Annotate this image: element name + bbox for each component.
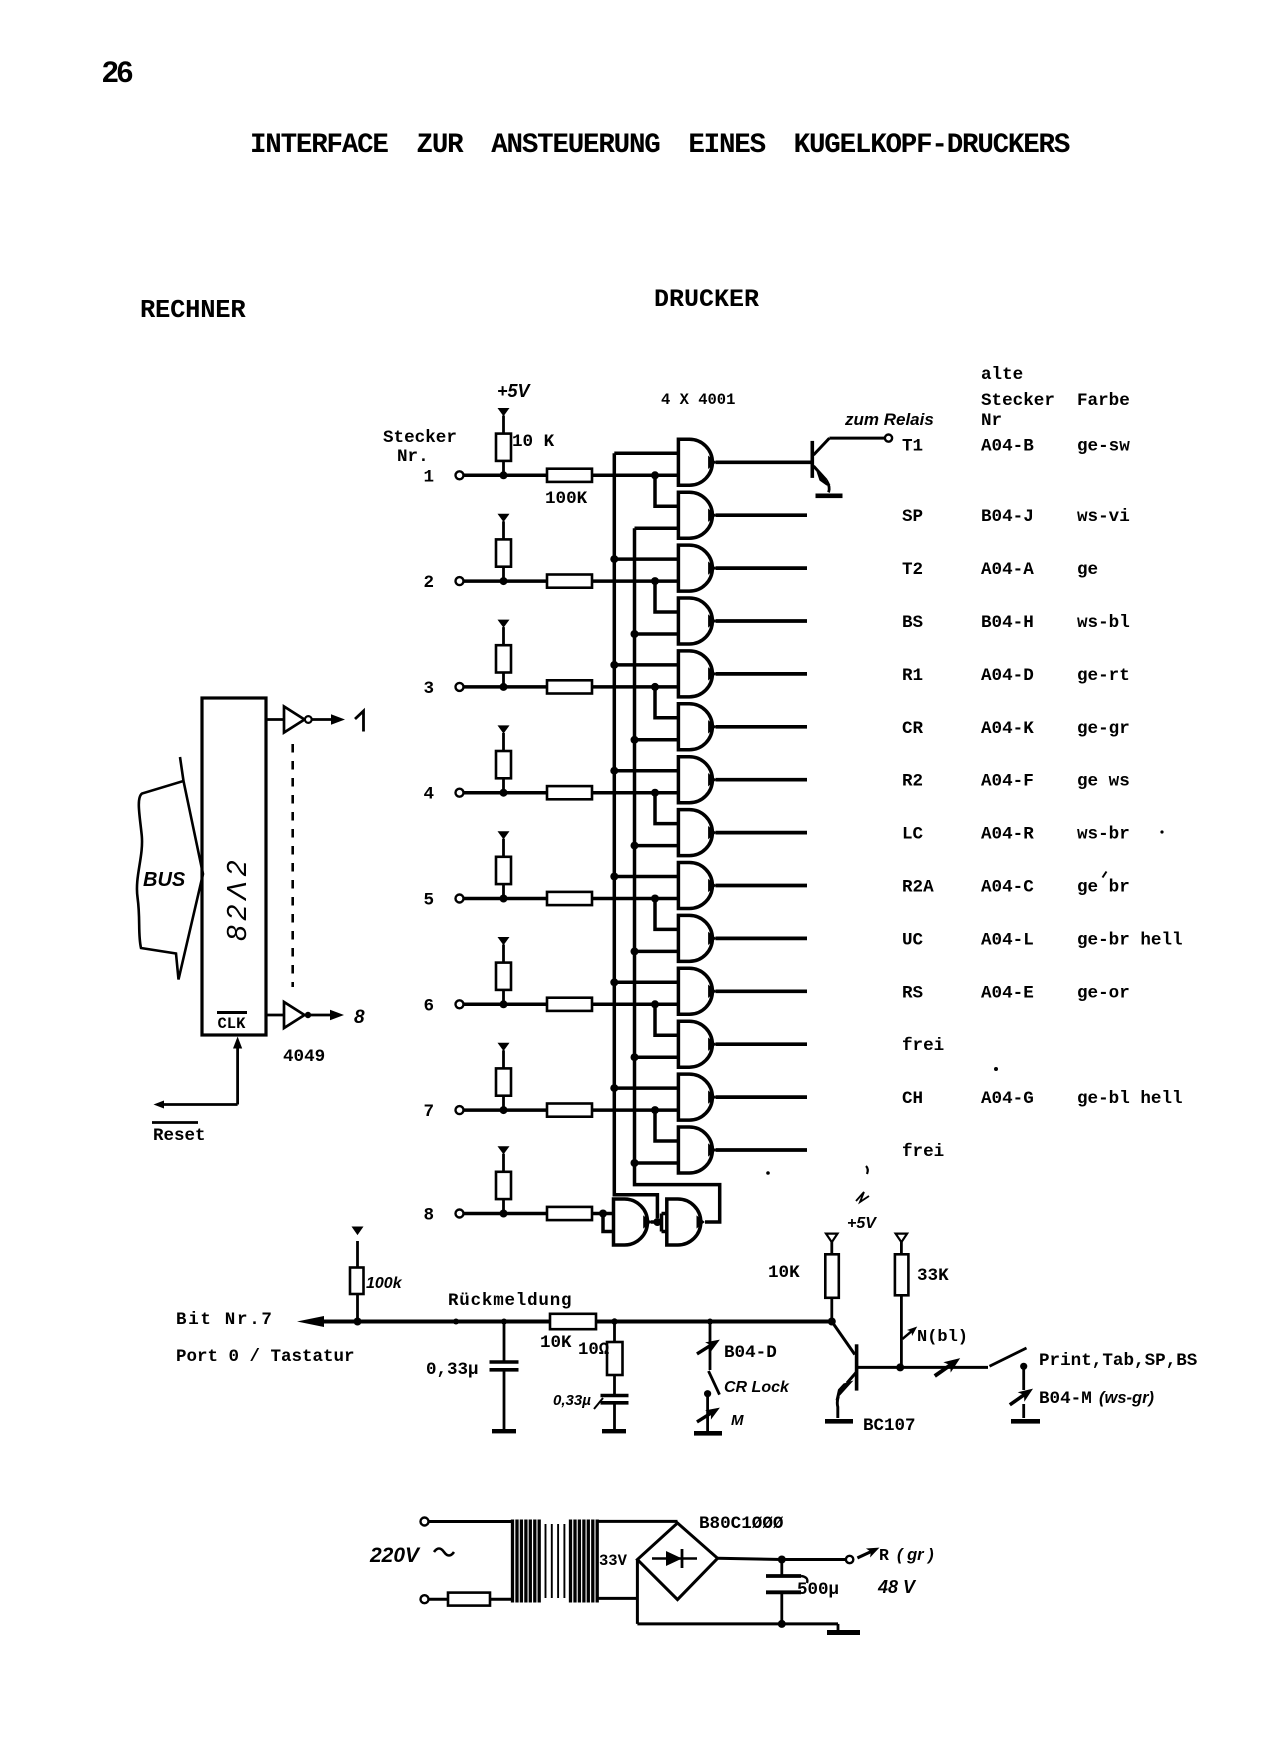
- svg-text:ge-sw: ge-sw: [1077, 437, 1130, 457]
- pull-up resistor 10K row 4: [496, 725, 511, 796]
- svg-text:ge-rt: ge-rt: [1077, 666, 1130, 686]
- svg-text:220V: 220V: [369, 1544, 421, 1567]
- wire AC top: [429, 1520, 512, 1523]
- NOR gate U3c (RS): [678, 968, 715, 1014]
- svg-text:A04-L: A04-L: [981, 930, 1034, 950]
- IC 8212 box: [202, 698, 266, 1035]
- svg-text:T2: T2: [902, 560, 923, 580]
- svg-text:8: 8: [354, 1007, 365, 1028]
- svg-text:UC: UC: [902, 930, 924, 950]
- series resistor 100K row 3: [464, 680, 679, 693]
- label bit 8 handwritten: [354, 1007, 365, 1028]
- svg-text:Port 0 / Tastatur: Port 0 / Tastatur: [176, 1347, 355, 1367]
- NOR gate U3b (UC): [678, 915, 715, 961]
- ground M branch: [694, 1431, 722, 1436]
- wire output LC: [715, 831, 807, 835]
- svg-text:M: M: [731, 1412, 744, 1429]
- NOR gate U2d (LC): [678, 810, 715, 856]
- resistor 10K feedback: [540, 1314, 596, 1353]
- svg-text:ge-bl hell: ge-bl hell: [1077, 1089, 1183, 1109]
- NOR gate U1b (SP): [678, 492, 715, 538]
- contact R mark: [855, 1543, 881, 1562]
- capacitor C1 0,33u: [490, 1319, 519, 1430]
- speck: [766, 830, 1163, 1174]
- label BC107: [863, 1416, 916, 1436]
- svg-text:5: 5: [423, 891, 434, 911]
- labels row R1: [902, 666, 1130, 686]
- label DRUCKER: [654, 285, 759, 314]
- wire secondary top: [598, 1520, 678, 1523]
- label 48V: [877, 1577, 917, 1597]
- series resistor 100K row 2: [464, 575, 679, 588]
- svg-text:Nr.: Nr.: [397, 447, 429, 467]
- pull-up resistor 10K row 5: [496, 831, 511, 902]
- wire bus tap to gate 6 bottom input: [631, 736, 679, 744]
- transformer TR1: [513, 1520, 598, 1603]
- labels row T2: [902, 560, 1098, 580]
- svg-text:ws-br: ws-br: [1077, 825, 1130, 845]
- svg-text:CR Lock: CR Lock: [724, 1379, 790, 1396]
- wire input 1 branch to gate 2: [651, 471, 678, 506]
- NOR gate U2b (CR): [678, 704, 715, 750]
- label 0,33u handwritten: [553, 1392, 603, 1409]
- wire bus tap to gate 5 top input: [610, 661, 678, 669]
- ground C2: [602, 1429, 626, 1433]
- terminal zum Relais: [885, 435, 892, 442]
- pull-up resistor 10K row 8: [496, 1146, 511, 1217]
- resistor 100k feedback pull-up: [350, 1227, 364, 1326]
- wire bus tap to gate 4 bottom input: [631, 630, 679, 638]
- svg-text:B04-M: B04-M: [1039, 1389, 1092, 1409]
- wire input 7 branch to gate 14: [651, 1106, 678, 1141]
- wire output BS: [715, 619, 807, 623]
- wire input 3 branch to gate 6: [651, 683, 678, 718]
- wire input 8 branch: [599, 1210, 614, 1232]
- NOR gate U4c (strobe inverter 1): [614, 1199, 651, 1245]
- svg-text:Stecker: Stecker: [981, 391, 1055, 411]
- NOR gate U4a (CH): [678, 1074, 715, 1120]
- wire input 2 branch to gate 4: [651, 577, 678, 612]
- ground Q1 emitter: [816, 494, 843, 499]
- contact N(bl): [900, 1323, 920, 1342]
- label +5V (BC107): [847, 1215, 877, 1232]
- capacitor C3 500u: [766, 1560, 807, 1624]
- wire DC minus rail: [637, 1560, 838, 1632]
- wire clock input: [154, 1037, 243, 1109]
- ground switch branch: [1011, 1419, 1040, 1424]
- wire output T2: [715, 566, 807, 570]
- ground supply: [827, 1630, 860, 1635]
- input terminal 6: [423, 996, 463, 1016]
- wire output frei: [715, 1042, 807, 1046]
- svg-text:RECHNER: RECHNER: [140, 296, 246, 325]
- NOR gate U2a (R1): [678, 651, 715, 697]
- label zum Relais: [844, 410, 934, 429]
- label 0,33u: [426, 1360, 479, 1380]
- svg-text:10K: 10K: [540, 1333, 572, 1353]
- svg-text:A04-K: A04-K: [981, 719, 1034, 739]
- labels row UC: [902, 930, 1183, 950]
- wire bus tap to gate 8 bottom input: [631, 842, 679, 850]
- pull-up resistor 10K row 3: [496, 620, 511, 691]
- svg-text:10K: 10K: [768, 1263, 800, 1283]
- wire bus tap to gate 14 bottom input: [631, 1159, 679, 1167]
- wire 10K pull-up (BC107 collector): [825, 1234, 839, 1326]
- svg-text:INTERFACE ZUR ANSTEUERUNG EINE: INTERFACE ZUR ANSTEUERUNG EINES KUGELKOP…: [250, 130, 1070, 161]
- svg-text:26: 26: [102, 56, 133, 89]
- labels row R2A: [902, 872, 1130, 898]
- labels row frei: [902, 1142, 944, 1162]
- svg-text:Farbe: Farbe: [1077, 391, 1130, 411]
- label Stecker Nr.: [383, 428, 457, 467]
- label 33V: [599, 1552, 628, 1570]
- svg-text:33K: 33K: [917, 1266, 949, 1286]
- svg-text:A04-F: A04-F: [981, 772, 1034, 792]
- wire output R2A: [715, 884, 807, 888]
- wire output CR: [715, 725, 807, 729]
- svg-text:A04-E: A04-E: [981, 983, 1034, 1003]
- svg-text:Rückmeldung: Rückmeldung: [448, 1291, 572, 1311]
- series resistor 100K row 5: [464, 892, 679, 905]
- label 4049: [283, 1047, 325, 1067]
- svg-text:100k: 100k: [366, 1275, 403, 1292]
- svg-text:CH: CH: [902, 1089, 923, 1109]
- label 10K (BC107): [768, 1263, 800, 1283]
- bridge rectifier B80C1000: [637, 1523, 717, 1600]
- transistor Q2 BC107: [832, 1322, 904, 1419]
- contact B04-M: [1007, 1384, 1037, 1410]
- label B04-D: [724, 1343, 777, 1363]
- svg-text:ge br: ge br: [1077, 878, 1130, 898]
- wire gate 1 output to Q1 base: [715, 460, 810, 464]
- wire bus tap to gate 12 bottom input: [631, 1053, 679, 1061]
- title: [250, 130, 1070, 161]
- terminal 220V bottom: [421, 1595, 429, 1603]
- label 100K: [545, 489, 588, 509]
- wire output UC: [715, 937, 807, 941]
- svg-text:B80C1ØØØ: B80C1ØØØ: [699, 1514, 784, 1534]
- wire bus tap to gate 11 top input: [610, 978, 678, 986]
- wire B04-D branch: [707, 1319, 713, 1371]
- NOR gate U2c (R2): [678, 757, 715, 803]
- header alte: [981, 365, 1023, 385]
- wire B04-M to ground: [1022, 1404, 1025, 1418]
- wire DC plus: [718, 1556, 846, 1564]
- wire second bus (NOR strobe B): [635, 528, 720, 1222]
- svg-text:ge-br hell: ge-br hell: [1077, 930, 1183, 950]
- svg-text:B04-D: B04-D: [724, 1343, 777, 1363]
- svg-text:10 K: 10 K: [512, 432, 555, 452]
- svg-text:frei: frei: [902, 1036, 944, 1056]
- svg-text:B04-H: B04-H: [981, 613, 1034, 633]
- svg-text:10Ω: 10Ω: [578, 1341, 609, 1360]
- fuse F1: [429, 1593, 512, 1606]
- labels row frei: [902, 1036, 944, 1056]
- label BUS: [143, 869, 186, 891]
- contact M: [694, 1403, 744, 1429]
- svg-text:R1: R1: [902, 666, 923, 686]
- svg-text:4: 4: [423, 785, 434, 805]
- label Bit Nr.7: [176, 1310, 274, 1330]
- label 500u: [797, 1580, 839, 1600]
- svg-text:R2: R2: [902, 772, 923, 792]
- svg-text:48 V: 48 V: [877, 1577, 917, 1597]
- svg-text:( gr ): ( gr ): [897, 1546, 934, 1564]
- labels row T1: [902, 437, 1130, 457]
- labels row SP: [902, 507, 1130, 527]
- input terminal 5: [423, 891, 463, 911]
- NOR gate U1d (BS): [678, 598, 715, 644]
- buffer 4049 top: [266, 707, 345, 733]
- switch CR Lock: [704, 1371, 720, 1431]
- svg-text:Reset: Reset: [153, 1126, 206, 1146]
- wire output R2: [715, 778, 807, 782]
- svg-text:Nr: Nr: [981, 411, 1002, 431]
- labels row BS: [902, 613, 1130, 633]
- svg-text:DRUCKER: DRUCKER: [654, 285, 759, 314]
- contact B04-D: [694, 1335, 723, 1359]
- page number: [102, 56, 133, 89]
- label CLK: [217, 1013, 247, 1034]
- switch Print: [990, 1348, 1028, 1390]
- svg-text:ge: ge: [1077, 560, 1098, 580]
- terminal 220V top: [421, 1518, 429, 1526]
- series resistor 100K row 1: [464, 469, 679, 482]
- svg-text:Stecker: Stecker: [383, 428, 457, 448]
- labels row CH: [902, 1089, 1183, 1109]
- header Farbe: [1077, 391, 1130, 411]
- labels row LC: [902, 825, 1130, 845]
- resistor 33K: [895, 1234, 909, 1368]
- NOR gate U1a (T1): [678, 439, 715, 485]
- svg-text:A04-G: A04-G: [981, 1089, 1034, 1109]
- label 4 X 4001: [661, 391, 735, 409]
- wire bus tap to gate 10 bottom input: [631, 947, 679, 955]
- contact switch wire: [931, 1353, 964, 1381]
- wire output R1: [715, 672, 807, 676]
- svg-text:4049: 4049: [283, 1047, 325, 1067]
- svg-text:T1: T1: [902, 437, 923, 457]
- svg-text:4 X 4001: 4 X 4001: [661, 391, 735, 409]
- wire bus tap to gate 9 top input: [610, 873, 678, 881]
- buffer 4049 bottom: [266, 1002, 344, 1028]
- wire left bus (NOR strobe A): [614, 453, 678, 1218]
- svg-text:A04-R: A04-R: [981, 825, 1034, 845]
- header Stecker Nr: [981, 391, 1055, 431]
- svg-text:6: 6: [423, 996, 434, 1016]
- label 100k handwritten: [366, 1275, 403, 1292]
- input terminal 4: [423, 785, 463, 805]
- scribble mark: [856, 1192, 869, 1202]
- label 8212: [221, 856, 252, 941]
- label 220V: [369, 1544, 454, 1567]
- svg-text:A04-B: A04-B: [981, 437, 1034, 457]
- ground C1: [492, 1429, 516, 1433]
- labels row R2: [902, 772, 1130, 792]
- svg-text:N(bl): N(bl): [917, 1328, 968, 1347]
- label B04-M: [1039, 1389, 1155, 1409]
- label Port 0 / Tastatur: [176, 1347, 355, 1367]
- svg-text:7: 7: [423, 1102, 434, 1122]
- svg-text:2: 2: [423, 573, 434, 593]
- NOR gate U4b (frei): [678, 1127, 715, 1173]
- ground Q2 emitter: [825, 1419, 853, 1424]
- label +5V: [497, 381, 532, 401]
- svg-text:frei: frei: [902, 1142, 944, 1162]
- svg-text:+5V: +5V: [847, 1215, 877, 1232]
- wire secondary bottom: [598, 1597, 637, 1600]
- label N(bl): [917, 1328, 968, 1347]
- svg-text:BC107: BC107: [863, 1416, 916, 1436]
- transistor Q1 (relay driver): [811, 438, 885, 492]
- wire base to switch: [900, 1366, 988, 1369]
- svg-text:3: 3: [423, 679, 434, 699]
- svg-text:Bit Nr.7: Bit Nr.7: [176, 1310, 274, 1330]
- svg-text:100K: 100K: [545, 489, 588, 509]
- svg-text:Print,Tab,SP,BS: Print,Tab,SP,BS: [1039, 1351, 1198, 1371]
- svg-text:ge ws: ge ws: [1077, 772, 1130, 792]
- input terminal 8: [423, 1206, 463, 1226]
- svg-text:A04-C: A04-C: [981, 878, 1034, 898]
- terminal R(gr): [846, 1556, 853, 1563]
- series resistor 100K row 6: [464, 998, 679, 1011]
- wire bus tap to gate 3 top input: [610, 555, 678, 563]
- NOR gate U1c (T2): [678, 545, 715, 591]
- svg-text:ge-or: ge-or: [1077, 983, 1130, 1003]
- NOR gate U3d (frei): [678, 1021, 715, 1067]
- label Print,Tab,SP,BS: [1039, 1351, 1198, 1371]
- pull-up resistor 10K row 1: [496, 408, 511, 479]
- wire input 5 branch to gate 10: [651, 895, 678, 930]
- label 10 Ohm: [578, 1341, 609, 1360]
- svg-text:CLK: CLK: [218, 1015, 247, 1033]
- label Reset: [152, 1123, 206, 1147]
- label B80C1000: [699, 1514, 784, 1534]
- input terminal 1: [423, 467, 463, 487]
- series resistor 100K row 7: [464, 1104, 679, 1117]
- svg-text:500µ: 500µ: [797, 1580, 839, 1600]
- svg-text:CR: CR: [902, 719, 924, 739]
- label 10 K: [512, 432, 555, 452]
- NOR gate U3a (R2A): [678, 863, 715, 909]
- input terminal 3: [423, 679, 463, 699]
- svg-text:BUS: BUS: [143, 869, 186, 891]
- input terminal 2: [423, 573, 463, 593]
- svg-text:33V: 33V: [599, 1552, 628, 1570]
- label 33K: [917, 1266, 949, 1286]
- label R (gr): [879, 1546, 934, 1565]
- svg-text:1: 1: [423, 467, 434, 487]
- svg-text:R2A: R2A: [902, 878, 934, 898]
- BUS arrow: [137, 757, 203, 980]
- label RECHNER: [140, 296, 246, 325]
- svg-text:B04-J: B04-J: [981, 507, 1034, 527]
- labels row CR: [902, 719, 1130, 739]
- svg-text:ws-vi: ws-vi: [1077, 507, 1130, 527]
- wire input 6 branch to gate 12: [651, 1000, 678, 1035]
- svg-text:A04-D: A04-D: [981, 666, 1034, 686]
- svg-text:8: 8: [423, 1206, 434, 1226]
- wire input 4 branch to gate 8: [651, 789, 678, 824]
- NOR gate U4d (strobe inverter 2): [667, 1199, 704, 1245]
- svg-text:SP: SP: [902, 507, 923, 527]
- svg-text:82Λ2: 82Λ2: [221, 856, 252, 941]
- svg-text:zum Relais: zum Relais: [844, 410, 934, 429]
- wire output RS: [715, 989, 807, 993]
- svg-text:0,33µ: 0,33µ: [426, 1360, 479, 1380]
- wire output CH: [715, 1095, 807, 1099]
- capacitor C2 0,33u: [601, 1396, 629, 1430]
- svg-text:BS: BS: [902, 613, 924, 633]
- wire gate15 out to gate16 in: [651, 1214, 667, 1232]
- svg-text:R: R: [879, 1546, 889, 1565]
- input terminal 7: [423, 1102, 463, 1122]
- svg-text:ws-bl: ws-bl: [1077, 613, 1130, 633]
- wire output frei: [715, 1148, 807, 1152]
- label Rueckmeldung: [448, 1291, 572, 1311]
- dashed line outputs: [291, 744, 294, 987]
- wire bus tap to gate 13 top input: [610, 1084, 678, 1092]
- svg-text:A04-A: A04-A: [981, 560, 1034, 580]
- wire bus tap to gate 7 top input: [610, 767, 678, 775]
- series resistor 100K row 4: [464, 786, 679, 799]
- pull-up resistor 10K row 2: [496, 514, 511, 585]
- svg-text:RS: RS: [902, 983, 924, 1003]
- pull-up resistor 10K row 7: [496, 1043, 511, 1114]
- wire feedback line: [297, 1316, 831, 1327]
- svg-text:0,33µ: 0,33µ: [553, 1392, 591, 1409]
- resistor 10 Ohm: [607, 1318, 623, 1395]
- svg-text:ge-gr: ge-gr: [1077, 719, 1130, 739]
- svg-text:(ws-gr): (ws-gr): [1099, 1389, 1155, 1407]
- wire output SP: [715, 513, 807, 517]
- series resistor 100K row 8: [464, 1207, 614, 1220]
- pull-up resistor 10K row 6: [496, 937, 511, 1008]
- label CR Lock: [724, 1379, 790, 1396]
- label bit 1 handwritten: [355, 711, 364, 732]
- svg-text:alte: alte: [981, 365, 1023, 385]
- svg-text:LC: LC: [902, 825, 924, 845]
- svg-text:+5V: +5V: [497, 381, 532, 401]
- labels row RS: [902, 983, 1130, 1003]
